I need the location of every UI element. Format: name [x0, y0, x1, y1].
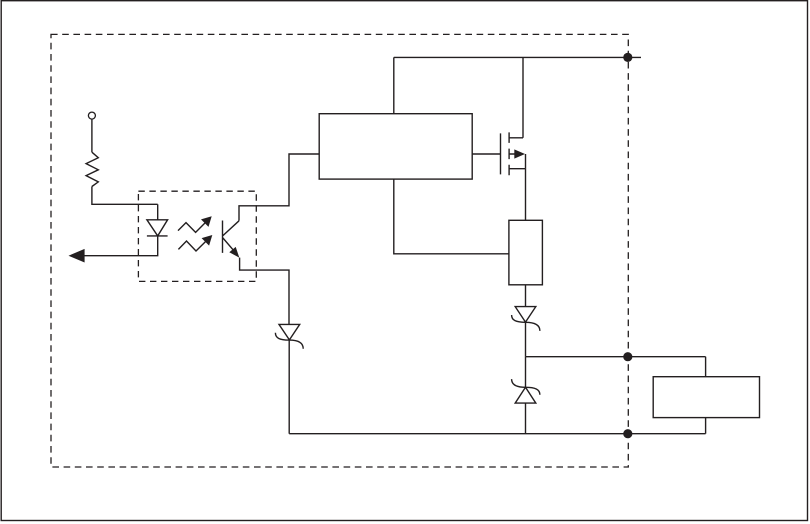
arrowhead (left terminal)	[69, 249, 85, 263]
node (bottom rail junction)	[623, 429, 632, 438]
wire	[157, 204, 159, 220]
resistor R1	[86, 152, 98, 186]
wire (Q1 collector to U2)	[239, 154, 319, 221]
wire	[525, 357, 527, 388]
wire	[525, 403, 527, 434]
wire (U2 bottom pin to R2)	[394, 179, 509, 254]
zener D2	[515, 307, 536, 323]
wire (gate)	[472, 153, 500, 155]
node (mid rail junction)	[623, 352, 632, 361]
wire	[92, 187, 158, 205]
module boundary (dashed enclosure)	[51, 34, 628, 467]
wire	[288, 340, 290, 434]
LED D1 (opto emitter)	[147, 220, 168, 236]
load block	[653, 377, 759, 418]
wire (source to R2)	[525, 169, 527, 221]
optocoupler U1 boundary (dashed)	[138, 191, 256, 281]
wire	[84, 236, 157, 256]
wire	[525, 285, 527, 307]
light arrow 2	[178, 238, 208, 251]
wire	[91, 119, 93, 152]
control IC U2	[319, 114, 472, 179]
node (top rail junction)	[623, 53, 632, 62]
zener D4	[279, 324, 300, 340]
wire	[705, 418, 707, 434]
zener D3	[512, 379, 540, 395]
phototransistor Q1	[223, 221, 240, 254]
terminal J1	[88, 112, 95, 119]
wire (U2 top pin to +rail)	[393, 57, 395, 113]
MOSFET Q2	[501, 132, 526, 175]
wire (bottom rail)	[289, 433, 705, 435]
wire (Q1 emitter down)	[240, 258, 289, 325]
light arrow 1	[178, 220, 208, 233]
resistor R2 (sense)	[509, 220, 543, 284]
wire	[705, 357, 707, 377]
wire	[525, 322, 527, 357]
wire (drain to +rail)	[522, 57, 524, 137]
wire (top rail)	[394, 56, 641, 58]
wire (mid rail)	[526, 356, 706, 358]
